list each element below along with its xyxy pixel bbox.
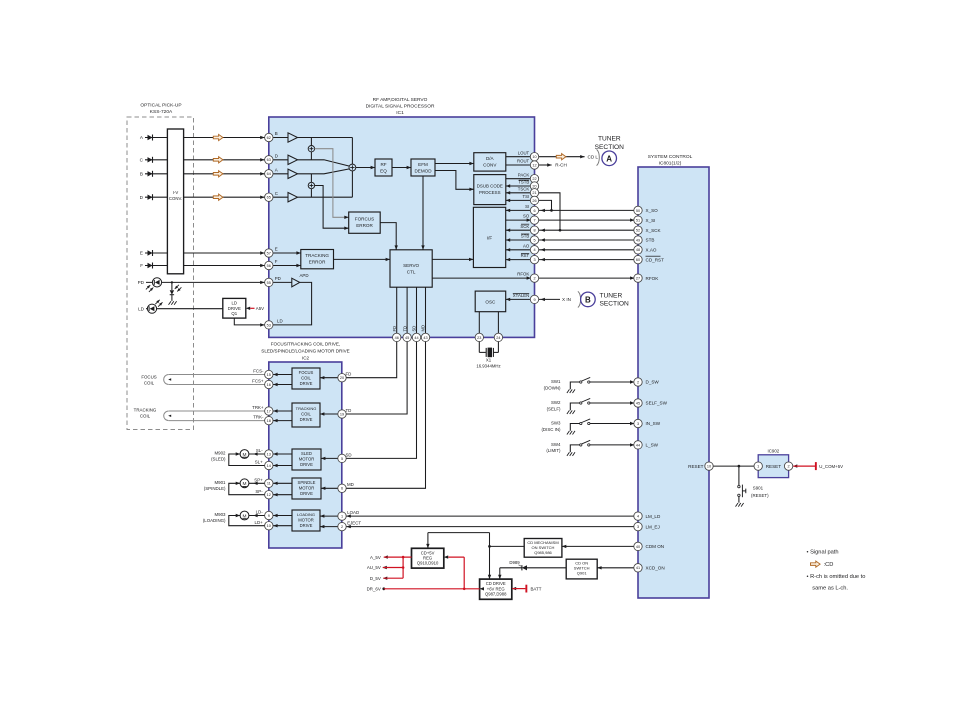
svg-text:PD: PD [275,276,281,281]
svg-text:LOUT: LOUT [518,150,530,155]
svg-text:65: 65 [267,196,271,200]
svg-text:DRIVE: DRIVE [228,306,241,311]
wire SERVO CTL MD output [342,287,426,488]
wire E to TRACKING ERROR [269,247,301,255]
wire F to IC1 pin [184,264,269,267]
svg-text:RF AMP,DIGITAL SERVO: RF AMP,DIGITAL SERVO [373,97,428,103]
svg-text:MOTOR: MOTOR [299,457,315,462]
svg-text:SP-: SP- [255,489,263,494]
svg-text:OSC: OSC [485,300,496,305]
wire SI (X_SO) [506,204,658,213]
svg-text:X_SO: X_SO [646,208,659,213]
note: signal path legend [807,549,866,591]
IC1 pin LOUT [530,153,538,161]
svg-text:DSUB CODE: DSUB CODE [477,184,503,189]
IC801 pin X_SCK [634,226,642,234]
wire FORCUS ERROR to SERVO CTL [380,223,398,250]
svg-text:COIL: COIL [301,376,311,381]
wire IC2 MD input stub [321,482,354,490]
wire LOUT to tuner (CD L) with signal-path arrow [539,154,599,160]
svg-text:23: 23 [477,336,481,340]
wire B to IC1 pin with signal-path arrow [184,171,269,177]
LOADING MOTOR DRIVE block [292,510,320,531]
svg-text:PACK: PACK [518,172,530,177]
svg-text:Q1: Q1 [231,311,237,316]
SERVO CTL block [390,250,432,287]
wire IC2 LOAD input stub [320,510,359,518]
wire STB [506,234,655,243]
svg-text:U_COM+5V: U_COM+5V [819,464,843,469]
switch SW2 (SELF) [547,398,638,411]
svg-text:SECTION: SECTION [595,144,625,151]
svg-text:DRIVE: DRIVE [300,462,313,467]
svg-text:I-V: I-V [173,190,179,195]
svg-text:Q910,D910: Q910,D910 [417,561,439,566]
IC801 pin X.AO [634,246,642,254]
svg-text:LD: LD [138,306,145,311]
svg-text:SECTION: SECTION [600,301,630,308]
RF EQ block [375,159,392,176]
CD MECHANISM ON SWITCH block Q985,986 [524,539,562,558]
photodiode E [140,250,167,256]
amp D [269,154,298,165]
wire TSI [506,194,535,202]
svg-text:TRK-: TRK- [253,415,264,420]
TRACKING ERROR block [301,250,334,269]
svg-text:SYSTEM CONTROL: SYSTEM CONTROL [648,154,693,160]
summing node A+C [308,182,314,188]
FORCUS ERROR block [349,212,381,233]
svg-text:2: 2 [341,525,343,529]
svg-text:57: 57 [267,251,271,255]
svg-text:TRK+: TRK+ [252,405,264,410]
summing node RF [349,164,356,171]
IC902 pin 1 [754,462,762,470]
wire TRK+ (gray) [169,405,269,411]
svg-text:2: 2 [533,276,535,280]
svg-text:M902: M902 [215,451,227,456]
wire RST (CD_RST) [506,253,664,262]
svg-text:E: E [140,251,143,256]
svg-text:SLED: SLED [301,451,312,456]
motor M903 (LOADING) [203,511,249,523]
svg-text:SP+: SP+ [254,477,263,482]
wires sled motor [229,448,269,465]
ground (SW1) [567,389,575,393]
svg-text:SO: SO [523,214,530,219]
svg-text:SL+: SL+ [255,460,263,465]
CD DRIVE +6V REG block Q987,D988 [480,579,512,599]
svg-text:21: 21 [532,191,536,195]
svg-text:L_SW: L_SW [646,443,659,448]
wire EFM DEMOD to SERVO CTL [421,176,424,250]
IC1 pin SD [412,333,420,341]
svg-text:SW4: SW4 [551,442,561,447]
svg-text:CDM ON: CDM ON [646,544,665,549]
svg-text:20: 20 [340,376,344,380]
svg-text:SELF_SW: SELF_SW [646,401,668,406]
svg-text:13: 13 [267,452,271,456]
svg-text:X_SCK: X_SCK [646,228,662,233]
IC801 pin RFOK [634,274,642,282]
wire SO (X_SI) [506,214,656,223]
svg-text:ERROR: ERROR [356,223,373,228]
svg-text:Q987,D988: Q987,D988 [485,592,507,597]
svg-text:IC902: IC902 [768,449,780,454]
svg-text:LM_LD: LM_LD [646,514,661,519]
svg-text:12: 12 [532,163,536,167]
svg-text:1: 1 [341,514,343,518]
svg-text:60: 60 [636,258,640,262]
svg-text:D989: D989 [509,560,520,565]
svg-text:FORCUS: FORCUS [355,217,374,222]
svg-text:MOTOR: MOTOR [298,518,314,523]
svg-text:9: 9 [533,298,535,302]
IC2 pin FCS- [265,370,273,378]
IC801 pin L_SW [634,441,642,449]
svg-text:FOCUS: FOCUS [141,375,156,380]
IC2 pin SL- [265,450,273,458]
switch SW3 (DISC IN) [541,419,638,432]
svg-text:22: 22 [532,177,536,181]
wire EFM DEMOD to D/A CONV [435,162,474,165]
svg-text:46: 46 [395,336,399,340]
IC1 pin D [265,156,273,164]
IC2 pin LOAD [338,512,346,520]
svg-text:45: 45 [636,401,640,405]
svg-text:DRIVE: DRIVE [300,491,313,496]
IC2 pin FCS+ [265,380,273,388]
CD ON SWITCH block Q901 [566,559,597,579]
svg-text:5: 5 [341,457,343,461]
IC2 title [261,341,350,360]
wire sum B+D to FORCUS ERROR (gray) [315,149,349,219]
wire AO (X.AO) [506,243,657,252]
wire IC801 RESET to IC902 [688,464,758,469]
supply label DR_6V (red) [367,587,484,592]
svg-text:• R-ch is omitted due to: • R-ch is omitted due to [807,574,866,580]
wire IC2 FD input stub [320,372,351,380]
svg-text:DR_6V: DR_6V [367,587,381,592]
D/A CONV block [474,153,506,171]
svg-text:FOCUS: FOCUS [299,370,314,375]
svg-text:DRIVE: DRIVE [300,417,313,422]
IC2 pin LD- [265,511,273,519]
photodiode C [140,157,168,163]
svg-text:49: 49 [636,238,640,242]
IC1 pin TSCK [530,189,538,197]
wire IC2 LD+ stub [269,524,292,527]
wire red vertical A/AU/D_5V [402,557,404,578]
wire TRK- (gray) [169,415,269,421]
svg-text:D_5V: D_5V [370,576,381,581]
svg-text:FD: FD [392,326,397,332]
label FD (rotated) [392,326,397,332]
wire IC2 FCS+ stub [269,383,292,386]
wire PACK [506,172,535,178]
svg-text:52: 52 [636,229,640,233]
amp B [269,131,298,142]
wire IC2 SL+ stub [269,464,292,467]
wire RFOK [432,272,659,281]
IC801 pin IN_SW [634,419,642,427]
DSUB CODE PROCESS block [474,175,506,205]
svg-text:KSS-720A: KSS-720A [150,109,173,115]
IC801 pin RESET [705,462,713,470]
svg-text:16: 16 [267,383,271,387]
IC801 pin SELF_SW [634,399,642,407]
wire TSCK loop to SCK net [535,193,562,232]
svg-text:(LOADING): (LOADING) [203,518,226,523]
svg-text:24: 24 [496,336,500,340]
wire amp D output into RF sum [298,160,350,166]
wire ROUT to R-CH [539,163,567,168]
svg-text:MOTOR: MOTOR [299,486,315,491]
A5V supply to LD DRIVE [246,306,264,311]
svg-text:SD: SD [346,452,352,457]
IC1 pin A [265,170,273,178]
svg-text:44: 44 [636,443,640,447]
IC2 pin TD [338,410,346,418]
svg-text:CONV: CONV [483,163,497,168]
IC2 pin TRK- [265,416,273,424]
svg-text:9: 9 [268,514,270,518]
svg-text:11: 11 [267,482,271,486]
wire D to IC1 pin with signal-path arrow [184,194,269,200]
svg-text:TUNER: TUNER [600,292,623,299]
IC801 pin LM_EJ [634,522,642,530]
svg-text:10: 10 [267,524,271,528]
IC1 pin XTALEN [530,295,538,303]
svg-text:A5V: A5V [256,306,264,311]
ground (S901) [736,503,744,507]
amp A [269,168,298,179]
IC2 pin SP+ [265,479,273,487]
svg-text:X1: X1 [486,358,492,363]
wire amp B output [298,137,353,139]
svg-text:X.AO: X.AO [646,248,657,253]
svg-text:STB: STB [646,238,655,243]
photodiode PD (monitor) [138,278,269,292]
svg-text:IC801(1/2): IC801(1/2) [659,161,682,167]
ground (SW4) [567,452,575,456]
wire LOAD from IC801 LM_LD [342,514,661,519]
wire red DR_6V branch to CD+5V REG [444,555,464,588]
IC2 motor/coil drive block [269,362,342,548]
wire SERVO CTL SD output [342,287,417,458]
svg-text:• Signal path: • Signal path [807,549,839,555]
IC1 pin F [265,261,273,269]
svg-text:A: A [606,154,612,163]
svg-text:DIGITAL SIGNAL PROCESSOR: DIGITAL SIGNAL PROCESSOR [366,104,435,110]
svg-text:26: 26 [532,199,536,203]
switch SW4 (LIMIT) [546,440,638,453]
IC1 pin XTAL2 [494,333,502,341]
IC2 pin SD [338,454,346,462]
IC1 RF amp / digital servo DSP block [269,117,535,337]
IC1 pin RFOK [530,274,538,282]
svg-text:LM_EJ: LM_EJ [646,524,660,529]
svg-text:41: 41 [636,566,640,570]
wire IC2 SP- stub [269,493,292,496]
svg-text:51: 51 [636,218,640,222]
svg-text:4: 4 [637,514,639,518]
svg-text:AU_5V: AU_5V [367,565,381,570]
supply label D_5V (red) [370,576,403,581]
svg-text:CTL: CTL [407,270,416,275]
svg-text:1: 1 [757,464,759,468]
svg-text:(DISC IN): (DISC IN) [541,427,561,432]
LD DRIVE Q1 block [223,298,246,318]
IC801 pin D_SW [634,378,642,386]
svg-text:64: 64 [267,172,271,176]
svg-text:2: 2 [788,464,790,468]
CD+5V REG block Q910,D910 [412,548,444,568]
svg-text:3: 3 [533,258,535,262]
svg-text:(SELF): (SELF) [547,406,561,411]
wire EJECT from IC801 LM_EJ [342,524,660,529]
IC1 pin LD [265,321,273,329]
IC902 reset IC [758,449,788,478]
wire F to TRACKING ERROR [269,259,301,267]
op-amp APD [292,273,309,287]
svg-text:62: 62 [267,136,271,140]
svg-text:SPINDLE: SPINDLE [298,480,316,485]
svg-text:(RESET): (RESET) [751,493,769,498]
IC1 pin E [265,249,273,257]
svg-text:CD_RST: CD_RST [646,257,665,262]
svg-text:TRACKING: TRACKING [296,406,317,411]
svg-text:ROUT: ROUT [517,159,530,164]
IC2 pin SL+ [265,461,273,469]
svg-text:EQ: EQ [380,168,387,173]
svg-text:LD: LD [277,319,283,324]
svg-text:DRIVE: DRIVE [300,381,313,386]
svg-text:TUNER: TUNER [598,136,621,143]
IC801 pin CD_RST [634,255,642,263]
svg-text:A_5V: A_5V [370,555,381,560]
IC1 pin RST [530,255,538,263]
svg-text:X_SI: X_SI [646,218,656,223]
svg-text:LD: LD [232,301,238,306]
svg-text:10: 10 [532,155,536,159]
svg-text:RESET: RESET [766,464,782,469]
svg-text:43: 43 [423,336,427,340]
wire SERVO CTL to I/F [432,258,473,261]
IC1 pin TSTB [530,182,538,190]
svg-text:48: 48 [636,248,640,252]
label TD (rotated) [402,326,407,332]
monitor photodiode to ground [170,281,182,301]
wire TSCK [506,186,535,194]
supply label AU_5V (red) [367,565,405,570]
svg-text:SERVO: SERVO [403,263,419,268]
switch S901 (RESET) [738,466,769,503]
wire FCS- (gray) [169,369,269,375]
IC1 pin STB [530,236,538,244]
svg-text:3: 3 [637,525,639,529]
svg-text:R-CH: R-CH [555,163,566,168]
svg-text:17: 17 [267,409,271,413]
label D_SW [646,380,660,385]
svg-text:53: 53 [267,323,271,327]
wire TRACKING ERROR to SERVO CTL [334,258,391,261]
svg-text:OPTICAL PICK-UP: OPTICAL PICK-UP [140,103,181,109]
wire CDM ON from IC801 [562,544,664,549]
IC2 pin EJECT [338,522,346,530]
svg-text:TSI: TSI [523,194,530,199]
wire SERVO CTL FD output [342,287,397,378]
svg-text:CD L: CD L [588,154,599,159]
svg-text:FCS+: FCS+ [252,379,264,384]
wire IC2 TRK- stub [269,419,292,422]
wire IC2 SD input stub [321,452,352,460]
tuner section callout A [595,136,625,166]
svg-text:B: B [275,131,278,136]
svg-text:7: 7 [533,218,535,222]
wire D989 to CD DRIVE reg [498,568,522,579]
svg-text:C: C [275,191,278,196]
IC1 pin SCK [530,226,538,234]
svg-text:SW3: SW3 [551,421,561,426]
IC801 title [648,154,693,167]
svg-text:SW1: SW1 [551,379,561,384]
svg-text::CD: :CD [824,562,834,568]
svg-text:BATT: BATT [531,586,542,591]
wire SERVO CTL TD output [342,287,407,414]
IC1 pin SI [530,206,538,214]
optical pick-up dashed enclosure KSS-720A [127,117,194,430]
svg-text:CONV.: CONV. [169,196,182,201]
wire CD MECH switch to regulators [426,533,524,580]
svg-text:EJECT: EJECT [347,521,361,526]
IC801 pin X_SI [634,216,642,224]
wires spindle motor [229,477,269,494]
svg-text:15: 15 [267,373,271,377]
optical pick-up title [140,103,181,116]
IC1 pin PACK [530,175,538,183]
ground (SW3) [567,431,575,435]
svg-text:S901: S901 [753,485,764,490]
svg-text:14: 14 [267,464,271,468]
wire vertical B-D [310,138,312,160]
IC902 pin 2 [784,462,792,470]
svg-text:Q901: Q901 [577,571,588,576]
photodiode D [140,194,168,200]
wire FCS+ (gray) [169,379,269,385]
svg-text:TRACKING: TRACKING [305,253,329,258]
svg-text:3: 3 [637,422,639,426]
diode D989 [509,560,566,571]
wire C to IC1 pin with signal-path arrow [184,157,269,163]
IC801 pin CDM ON [634,542,642,550]
svg-text:MD: MD [347,482,354,487]
label IN_SW [646,421,661,426]
laser diode LD [138,299,223,313]
svg-text:DEMOD: DEMOD [414,168,432,173]
svg-text:FCS-: FCS- [253,369,264,374]
svg-text:44: 44 [414,336,418,340]
SLED MOTOR DRIVE block [292,449,321,470]
svg-text:XCD_ON: XCD_ON [646,566,665,571]
svg-text:IN_SW: IN_SW [646,421,661,426]
IC801 system control block [638,167,709,598]
photodiode F [140,263,167,269]
motor M901 (SPINDLE) [204,479,249,491]
IC1 pin B [265,133,273,141]
wire TSTB [506,180,535,188]
wire A to IC1 pin with signal-path arrow [184,134,269,140]
